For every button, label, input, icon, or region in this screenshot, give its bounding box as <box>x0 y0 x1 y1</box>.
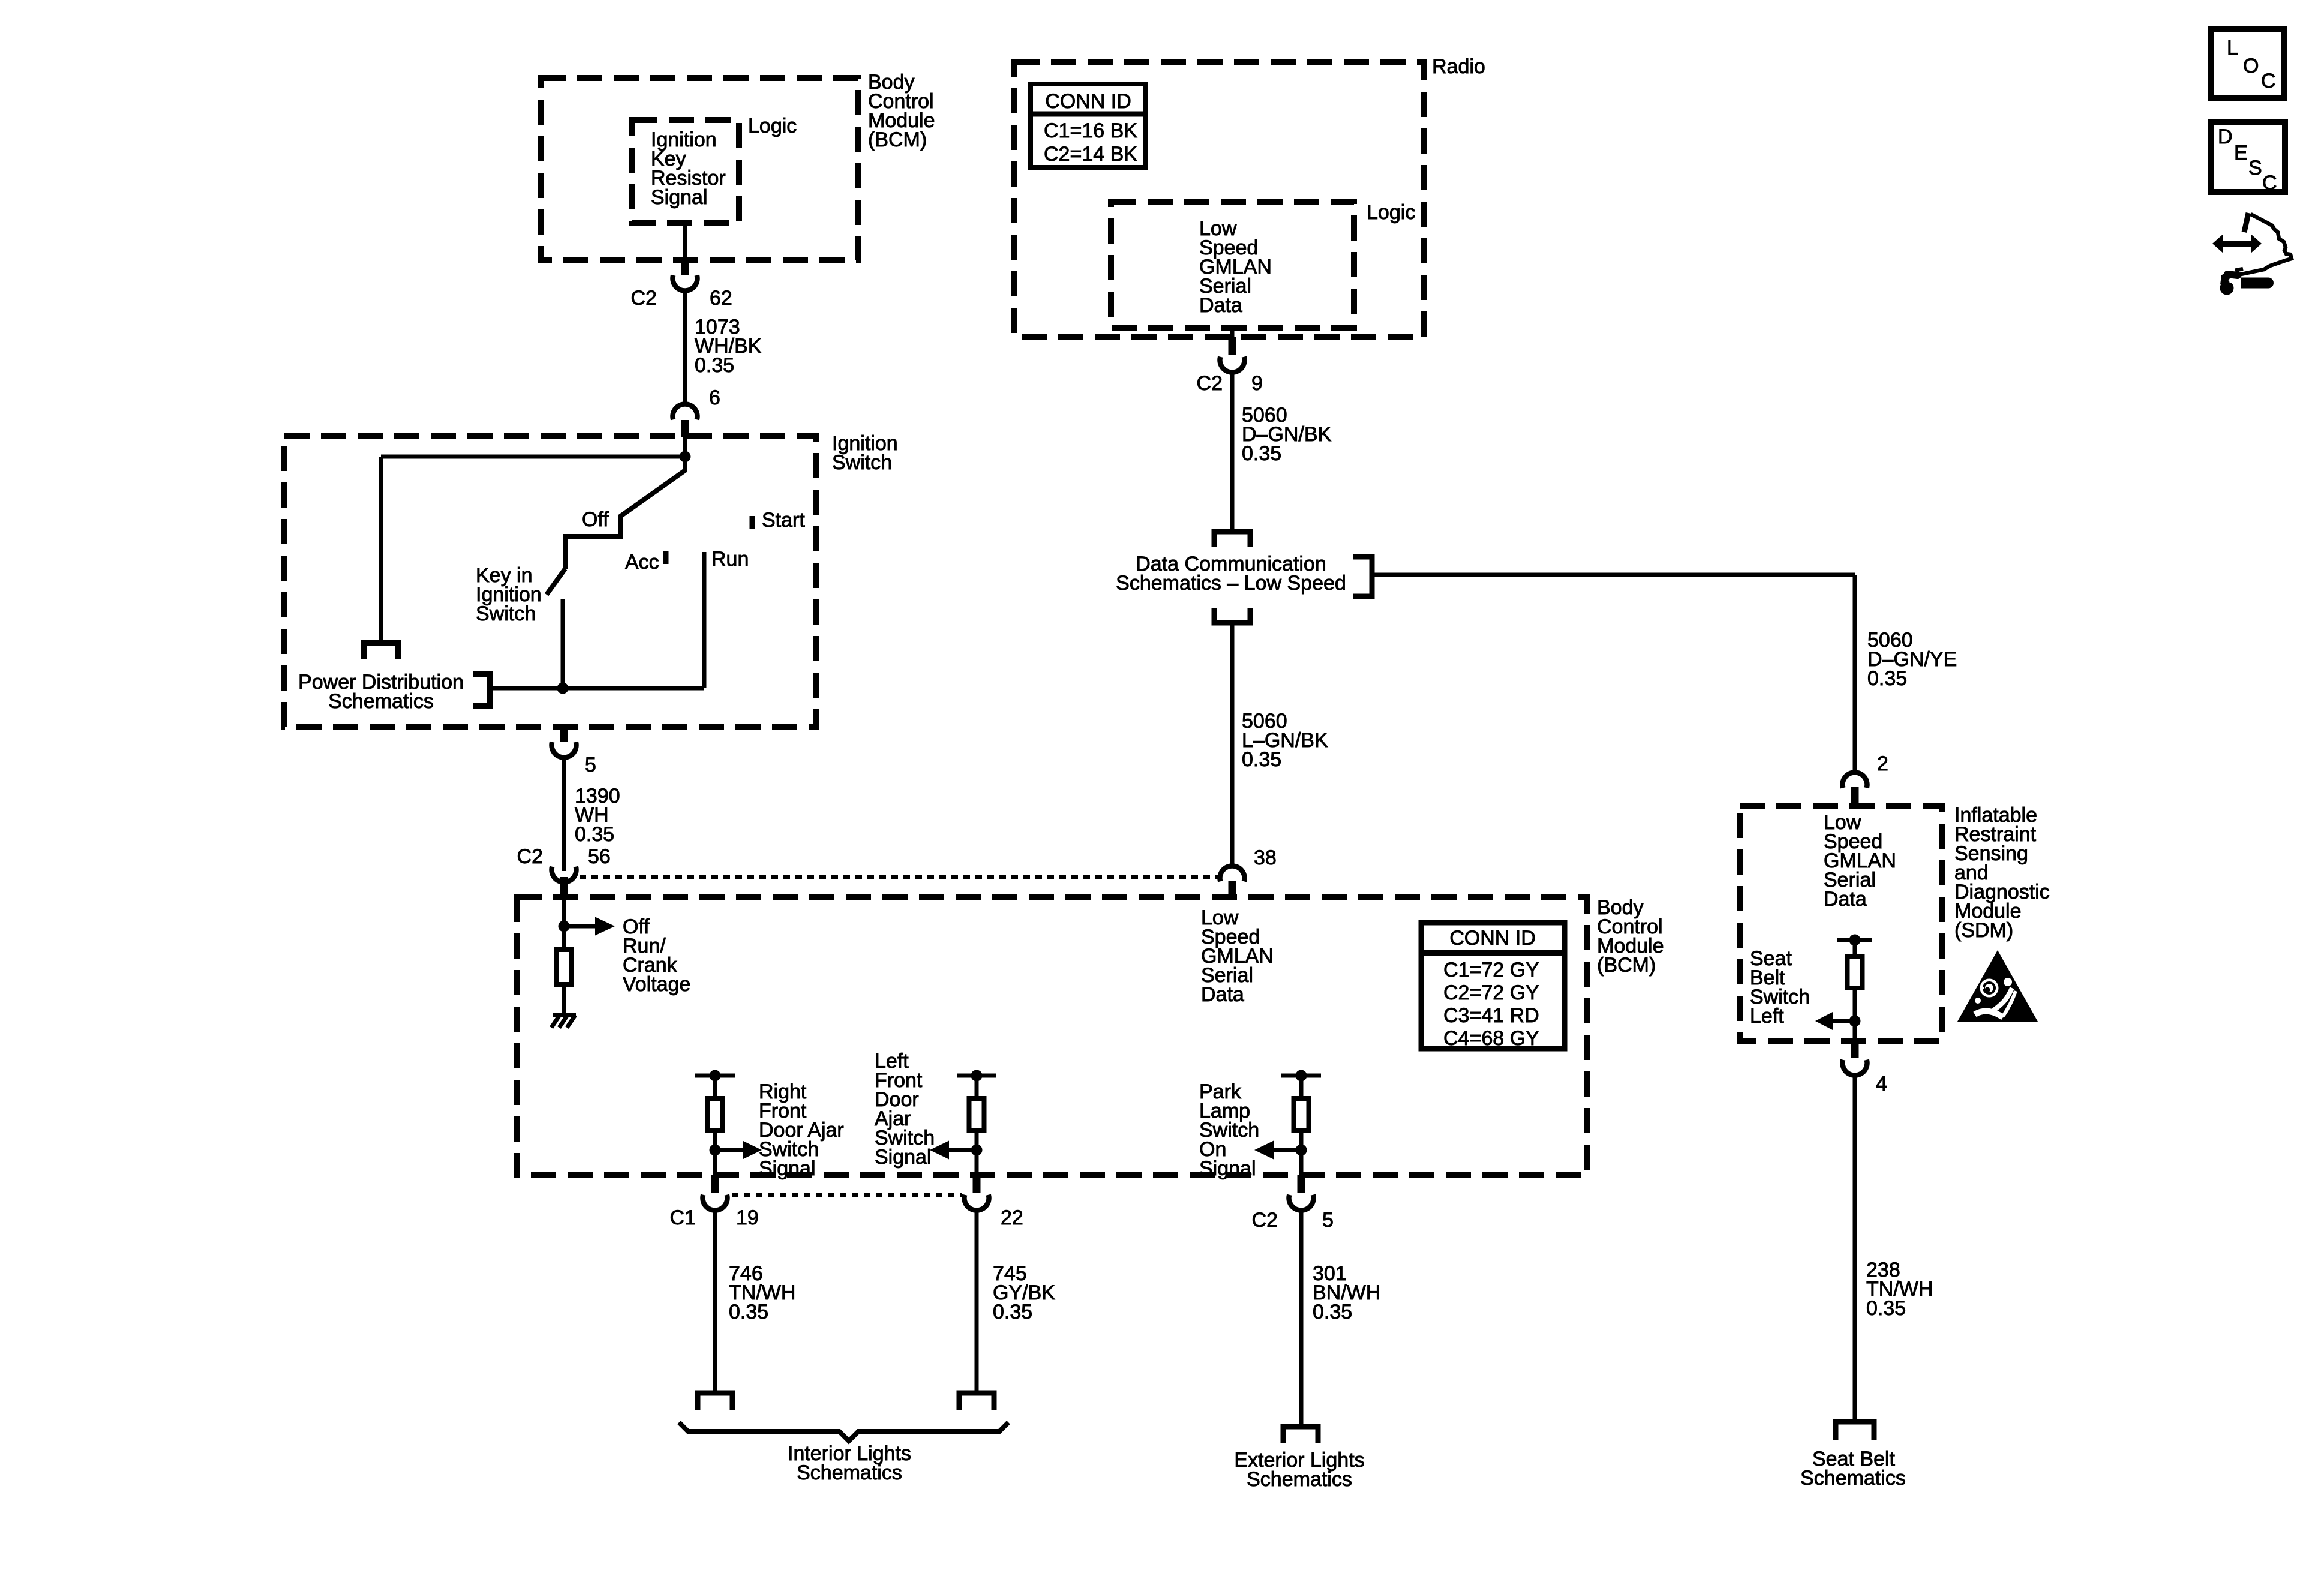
svg-text:Schematics: Schematics <box>1247 1468 1352 1491</box>
svg-text:E: E <box>2234 142 2248 164</box>
svg-text:0.35: 0.35 <box>1242 442 1281 465</box>
svg-text:C3=41 RD: C3=41 RD <box>1443 1004 1539 1027</box>
svg-text:Switch: Switch <box>832 451 892 474</box>
svg-text:Data: Data <box>1201 983 1244 1006</box>
svg-text:6: 6 <box>709 386 720 409</box>
svg-text:Radio: Radio <box>1432 55 1485 78</box>
svg-text:C2: C2 <box>1252 1209 1278 1232</box>
svg-text:0.35: 0.35 <box>1313 1301 1352 1323</box>
svg-text:Signal: Signal <box>1199 1157 1256 1180</box>
svg-text:5: 5 <box>585 754 596 776</box>
svg-text:38: 38 <box>1254 846 1277 869</box>
svg-text:D: D <box>2218 125 2233 148</box>
svg-text:4: 4 <box>1876 1073 1887 1095</box>
svg-text:Left: Left <box>1750 1005 1784 1028</box>
svg-text:Schematics: Schematics <box>1800 1467 1906 1490</box>
svg-text:C2: C2 <box>517 845 543 868</box>
svg-text:(SDM): (SDM) <box>1954 919 2013 942</box>
svg-text:Signal: Signal <box>759 1157 816 1180</box>
svg-text:C1=16 BK: C1=16 BK <box>1044 119 1137 142</box>
svg-text:Data: Data <box>1824 888 1867 911</box>
svg-text:S: S <box>2248 157 2262 179</box>
svg-text:Off: Off <box>582 508 609 531</box>
svg-text:Logic: Logic <box>1367 201 1415 224</box>
svg-text:Signal: Signal <box>875 1146 932 1169</box>
svg-text:2: 2 <box>1877 752 1888 775</box>
svg-text:56: 56 <box>588 845 611 868</box>
svg-text:Signal: Signal <box>651 186 708 209</box>
svg-text:0.35: 0.35 <box>695 354 734 377</box>
svg-text:Switch: Switch <box>476 602 536 625</box>
svg-text:Schematics – Low Speed: Schematics – Low Speed <box>1116 572 1346 595</box>
svg-text:C1: C1 <box>670 1206 696 1229</box>
svg-text:C1=72 GY: C1=72 GY <box>1443 959 1539 981</box>
svg-text:Acc: Acc <box>625 551 659 574</box>
svg-text:C4=68 GY: C4=68 GY <box>1443 1027 1539 1050</box>
svg-text:Schematics: Schematics <box>328 690 434 713</box>
svg-text:0.35: 0.35 <box>1867 667 1907 690</box>
svg-text:Logic: Logic <box>748 115 797 137</box>
svg-text:CONN ID: CONN ID <box>1045 90 1131 113</box>
svg-text:C2: C2 <box>1197 372 1223 395</box>
svg-text:Voltage: Voltage <box>623 973 690 996</box>
svg-text:0.35: 0.35 <box>1242 748 1281 771</box>
svg-text:O: O <box>2243 55 2259 77</box>
svg-text:C2=72 GY: C2=72 GY <box>1443 981 1539 1004</box>
svg-text:Data: Data <box>1199 294 1242 317</box>
svg-text:0.35: 0.35 <box>1866 1297 1906 1320</box>
svg-text:(BCM): (BCM) <box>868 128 927 151</box>
svg-text:CONN ID: CONN ID <box>1449 927 1536 950</box>
svg-text:L: L <box>2227 37 2238 59</box>
svg-text:C: C <box>2262 172 2277 194</box>
svg-text:Schematics: Schematics <box>797 1461 902 1484</box>
svg-text:Start: Start <box>762 509 805 532</box>
svg-text:(BCM): (BCM) <box>1597 954 1656 977</box>
svg-text:0.35: 0.35 <box>993 1301 1032 1323</box>
svg-text:9: 9 <box>1251 372 1263 395</box>
svg-text:C2: C2 <box>631 287 657 310</box>
svg-text:22: 22 <box>1001 1206 1023 1229</box>
svg-text:19: 19 <box>736 1206 759 1229</box>
svg-text:0.35: 0.35 <box>729 1301 768 1323</box>
svg-text:C2=14 BK: C2=14 BK <box>1044 143 1137 166</box>
svg-text:62: 62 <box>710 287 732 310</box>
svg-text:C: C <box>2261 70 2276 92</box>
svg-text:0.35: 0.35 <box>575 823 614 846</box>
svg-text:Run: Run <box>711 548 749 571</box>
svg-text:5: 5 <box>1322 1209 1334 1232</box>
